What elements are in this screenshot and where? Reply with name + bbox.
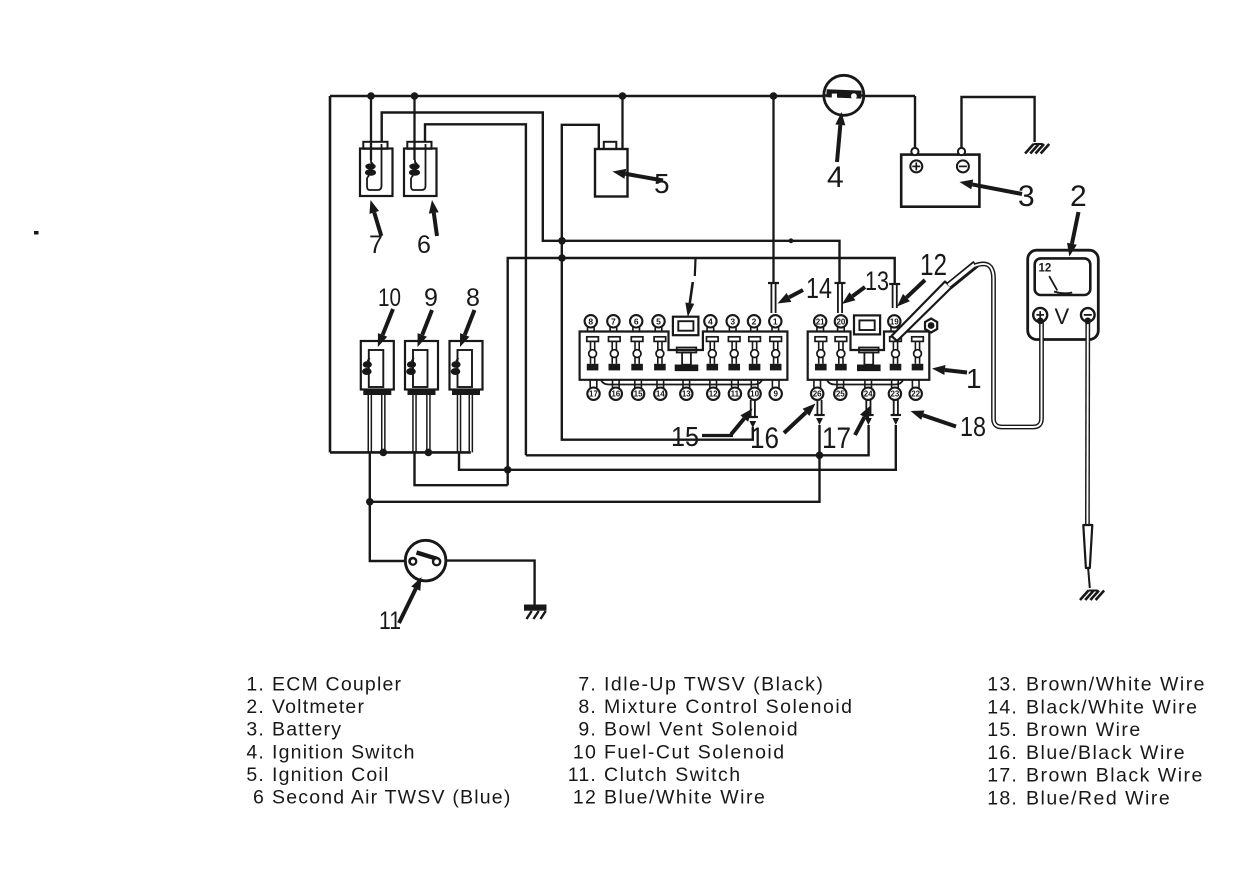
svg-text:Clutch Switch: Clutch Switch (604, 764, 742, 786)
svg-text:20: 20 (836, 317, 845, 326)
svg-text:ECM Coupler: ECM Coupler (272, 674, 402, 696)
svg-text:15.: 15. (987, 719, 1018, 741)
svg-text:17.: 17. (987, 765, 1018, 787)
svg-text:Ignition Coil: Ignition Coil (272, 764, 390, 786)
svg-text:Fuel-Cut Solenoid: Fuel-Cut Solenoid (604, 741, 786, 763)
svg-text:Brown Black Wire: Brown Black Wire (1026, 765, 1204, 787)
svg-text:10: 10 (750, 390, 759, 399)
svg-text:19: 19 (890, 317, 899, 326)
svg-text:22: 22 (911, 390, 920, 399)
svg-text:12: 12 (920, 247, 947, 282)
svg-text:21: 21 (816, 317, 825, 326)
svg-text:3: 3 (1018, 180, 1035, 213)
svg-text:Brown/White Wire: Brown/White Wire (1026, 674, 1206, 696)
svg-text:12: 12 (1039, 263, 1052, 275)
svg-text:Blue/White Wire: Blue/White Wire (604, 787, 766, 809)
svg-text:Ignition Switch: Ignition Switch (272, 741, 416, 763)
svg-text:11: 11 (379, 607, 401, 635)
svg-text:5.: 5. (246, 764, 265, 786)
svg-text:1: 1 (773, 316, 778, 326)
svg-text:Black/White Wire: Black/White Wire (1026, 696, 1198, 718)
svg-text:9: 9 (773, 390, 778, 399)
svg-text:18: 18 (960, 411, 986, 442)
svg-text:17: 17 (589, 390, 598, 399)
svg-text:1: 1 (966, 363, 982, 394)
svg-text:Battery: Battery (272, 719, 342, 741)
svg-text:12: 12 (573, 787, 597, 809)
svg-text:12: 12 (709, 390, 718, 399)
svg-text:7.: 7. (578, 674, 597, 696)
svg-text:4: 4 (827, 161, 844, 194)
svg-text:5: 5 (656, 316, 661, 326)
svg-text:Voltmeter: Voltmeter (272, 696, 365, 718)
svg-text:4.: 4. (246, 741, 265, 763)
svg-text:16: 16 (750, 422, 779, 455)
svg-text:1.: 1. (246, 674, 265, 696)
svg-text:15: 15 (634, 390, 643, 399)
svg-text:Mixture Control Solenoid: Mixture Control Solenoid (604, 696, 854, 718)
svg-text:9: 9 (424, 284, 438, 312)
svg-text:25: 25 (836, 390, 845, 399)
svg-text:Blue/Red Wire: Blue/Red Wire (1026, 788, 1171, 810)
svg-text:26: 26 (813, 390, 822, 399)
svg-text:13: 13 (682, 390, 691, 399)
svg-text:10: 10 (573, 741, 597, 763)
svg-text:Blue/Black Wire: Blue/Black Wire (1026, 742, 1186, 764)
svg-text:5: 5 (654, 168, 670, 199)
svg-text:6: 6 (634, 316, 639, 326)
svg-text:16.: 16. (987, 742, 1018, 764)
svg-text:6: 6 (253, 787, 265, 809)
svg-text:2.: 2. (246, 696, 265, 718)
svg-text:Brown Wire: Brown Wire (1026, 719, 1142, 741)
svg-text:23: 23 (890, 390, 899, 399)
svg-text:24: 24 (864, 390, 873, 399)
svg-text:8.: 8. (578, 696, 597, 718)
svg-text:V: V (1054, 304, 1069, 329)
svg-text:13: 13 (865, 266, 889, 296)
svg-text:6: 6 (417, 231, 431, 259)
svg-text:Second Air TWSV (Blue): Second Air TWSV (Blue) (272, 787, 512, 809)
svg-text:11.: 11. (568, 764, 597, 786)
svg-text:8: 8 (588, 316, 593, 326)
svg-text:11: 11 (731, 390, 740, 399)
svg-text:14.: 14. (987, 696, 1018, 718)
svg-text:Bowl Vent Solenoid: Bowl Vent Solenoid (604, 719, 799, 741)
svg-text:10: 10 (378, 284, 401, 312)
svg-text:18.: 18. (987, 788, 1018, 810)
svg-text:3: 3 (730, 316, 735, 326)
svg-text:Idle-Up TWSV (Black): Idle-Up TWSV (Black) (604, 674, 824, 696)
svg-text:7: 7 (611, 316, 616, 326)
svg-text:14: 14 (656, 390, 665, 399)
svg-text:15: 15 (671, 421, 699, 452)
svg-text:17: 17 (822, 422, 851, 455)
svg-text:3.: 3. (246, 719, 265, 741)
svg-text:2: 2 (752, 316, 757, 326)
svg-text:13.: 13. (987, 674, 1018, 696)
svg-text:16: 16 (611, 390, 620, 399)
svg-text:14: 14 (806, 273, 832, 305)
svg-text:9.: 9. (578, 719, 597, 741)
svg-text:4: 4 (708, 316, 713, 326)
svg-text:2: 2 (1070, 180, 1087, 213)
svg-text:8: 8 (466, 284, 480, 312)
